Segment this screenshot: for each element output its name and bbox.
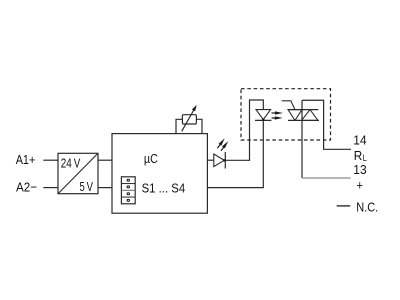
- DIP switch S1-S4 icon: [121, 177, 135, 204]
- status LED D1: [214, 152, 226, 169]
- terminal label 13: [353, 162, 366, 177]
- photo-triac Q1 bottom bar: [288, 119, 319, 121]
- wire status LED to node: [225, 159, 250, 161]
- optocoupler LED anode wire: [250, 100, 264, 110]
- wire A2- to DC/DC: [43, 187, 58, 189]
- svg-text:S1 ... S4: S1 ... S4: [142, 181, 186, 196]
- status LED D1 emission arrows: [217, 138, 228, 150]
- terminal A1+ label: [16, 152, 36, 167]
- photo-triac Q1 right triangle: [302, 110, 319, 121]
- wire optocoupler LED cathode down and back to uC: [207, 120, 263, 187]
- potentiometer P1 body: [182, 115, 196, 124]
- wire node up to optocoupler LED anode: [249, 99, 251, 160]
- svg-text:A2−: A2−: [16, 180, 37, 195]
- wire A1+ to DC/DC: [43, 159, 58, 161]
- wire triac MT1 to terminal 13: [302, 177, 351, 179]
- wire uC to status LED: [207, 159, 213, 161]
- wire DC/DC 24V out to uC: [98, 159, 112, 161]
- uC label: [144, 151, 158, 166]
- svg-text:R: R: [354, 148, 363, 163]
- optocoupler LED: [255, 110, 271, 121]
- N.C. dash: [337, 205, 351, 207]
- value label 24 V: [61, 155, 81, 170]
- microcontroller U2 box: [112, 134, 207, 214]
- svg-text:N.C.: N.C.: [356, 200, 378, 215]
- svg-text:+: +: [357, 177, 364, 192]
- wire DC/DC 5V out to uC: [98, 187, 112, 189]
- terminal label 14: [353, 133, 366, 148]
- photo-triac Q1 gate: [282, 101, 295, 110]
- svg-text:14: 14: [353, 133, 366, 148]
- DC/DC converter U1 box 24V/5V: [58, 153, 98, 193]
- potentiometer P1 bracket: [176, 119, 202, 133]
- label S1 ... S4: [142, 181, 186, 196]
- svg-text:A1+: A1+: [16, 152, 36, 167]
- svg-text:24 V: 24 V: [61, 155, 81, 170]
- wire triac MT2 to terminal 14: [302, 100, 351, 149]
- svg-text:13: 13: [353, 162, 366, 177]
- svg-text:µC: µC: [144, 151, 158, 166]
- photo-triac Q1 top bar: [288, 109, 318, 111]
- photo-triac Q1 main vertical: [301, 100, 303, 178]
- optocoupler U3 dashed box: [241, 89, 331, 140]
- polarity label +: [357, 177, 364, 192]
- N.C. label: [356, 200, 378, 215]
- optocoupler LED emission arrows: [272, 111, 284, 119]
- terminal A2- label: [16, 180, 37, 195]
- photo-triac Q1 left triangle: [288, 110, 302, 121]
- svg-text:5 V: 5 V: [80, 179, 94, 194]
- value label 5 V: [80, 179, 94, 194]
- potentiometer P1 arrow: [182, 105, 197, 132]
- load label RL: [354, 148, 367, 164]
